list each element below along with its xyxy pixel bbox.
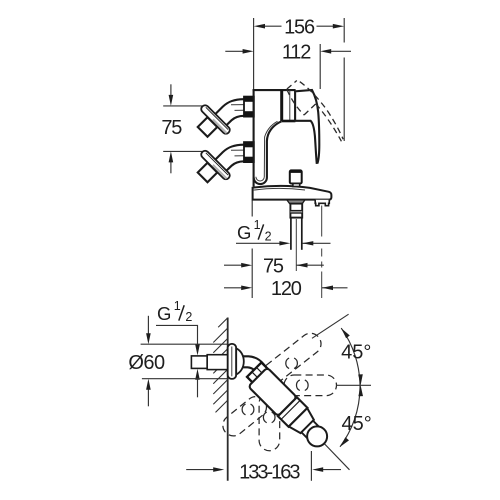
union flange disc <box>200 104 232 136</box>
shower outlet collar <box>287 200 305 204</box>
dim 112 tails <box>225 50 243 52</box>
extension line right 133-163 <box>310 451 312 481</box>
union lower <box>198 142 254 183</box>
wall line <box>227 318 229 481</box>
dim 75 bottom <box>224 264 243 266</box>
svg-text:45°: 45° <box>341 342 371 364</box>
ghost vertical button <box>263 412 266 423</box>
mixer body left edge <box>253 89 255 186</box>
shower outlet nut <box>290 204 302 218</box>
ghost down-left button <box>242 404 245 415</box>
ghost handshower up 45 <box>258 329 325 388</box>
lever dashed raised cap top edge <box>287 81 297 90</box>
base plate <box>253 186 332 200</box>
spout inner contour <box>256 121 278 181</box>
ghost horizontal button <box>296 380 299 391</box>
svg-text:156: 156 <box>284 16 315 38</box>
dim 156 arrow right <box>333 24 344 29</box>
union nut <box>244 97 254 117</box>
angular arc <box>340 328 360 447</box>
lever dashed raised blade lower edge <box>316 104 342 142</box>
svg-text:1: 1 <box>254 218 261 232</box>
shower outlet pipe <box>290 218 292 250</box>
extension line left (wall plane) <box>253 18 255 90</box>
holder arm <box>243 356 267 367</box>
svg-text:2: 2 <box>185 310 192 324</box>
leader G1/2 top <box>236 242 284 244</box>
arc arrowheads <box>341 328 350 338</box>
spout outer contour and U bottom <box>254 121 282 184</box>
base plate inner top line <box>253 188 305 190</box>
svg-text:112: 112 <box>282 42 311 64</box>
spout outlet nub <box>315 200 329 206</box>
ghost handshower down-left <box>219 392 271 440</box>
dim diameter 60 <box>141 343 228 345</box>
G1/2 up arrow at pipe <box>197 380 199 398</box>
extension line right 112 <box>319 44 321 89</box>
dim 120 <box>224 287 243 289</box>
lever dashed raised cap left edge <box>287 90 304 116</box>
union block <box>198 117 218 137</box>
diverter knob neck <box>293 184 300 187</box>
extension line x=252 below body <box>251 201 253 217</box>
union pipe elbow <box>212 99 244 117</box>
leader G1/2 bottom <box>156 325 198 345</box>
flange plate <box>228 344 237 379</box>
svg-text:2: 2 <box>265 229 272 243</box>
lever handle cap and blade <box>295 90 319 163</box>
ghost handshower vertical down <box>259 393 280 451</box>
dim 75 vertical: extension lines <box>163 105 204 107</box>
svg-text:G: G <box>157 303 171 324</box>
dim 133-163 <box>186 469 214 471</box>
wall hatching <box>213 318 227 412</box>
svg-text:120: 120 <box>271 278 302 300</box>
svg-text:1: 1 <box>174 299 181 313</box>
ray lower 45 <box>324 444 349 470</box>
lever dashed raised cap bottom edge <box>304 104 316 115</box>
extension line x=321.6 (spout outlet) <box>321 206 323 237</box>
ray upper 45 <box>312 314 349 338</box>
dim 156 line <box>264 25 282 27</box>
dim 112 arrow left <box>243 49 254 54</box>
cartridge ring thick <box>280 90 283 121</box>
handshower solid body <box>248 368 333 453</box>
svg-text:75: 75 <box>263 255 284 277</box>
dim 75 arrows <box>170 84 172 95</box>
svg-text:75: 75 <box>161 117 182 139</box>
diverter knob <box>290 170 302 183</box>
ray middle horizontal <box>336 384 371 386</box>
svg-text:Ø60: Ø60 <box>128 352 165 374</box>
dim 112 arrow right <box>320 49 331 54</box>
union upper <box>198 96 254 137</box>
mixer body top edge <box>253 89 296 91</box>
flange dome <box>236 348 244 374</box>
dim 156 arrow left <box>254 24 265 29</box>
ghost handshower horizontal <box>284 375 337 396</box>
lever dashed raised blade upper edge <box>300 82 343 140</box>
extension line right 156 <box>343 18 345 43</box>
shower outlet pipe centerline <box>295 219 297 271</box>
svg-text:45°: 45° <box>341 413 371 435</box>
cartridge ring thin <box>289 90 291 121</box>
svg-text:G: G <box>237 222 251 243</box>
body shoulder <box>282 120 296 123</box>
wall pipe stub <box>191 356 207 369</box>
handshower nut on arm <box>247 362 275 390</box>
ghost up button <box>286 358 289 369</box>
svg-text:133-163: 133-163 <box>239 461 300 483</box>
